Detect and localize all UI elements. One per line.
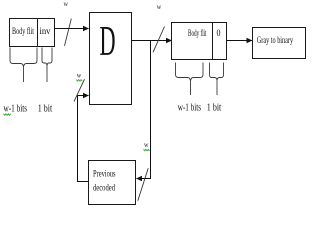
wire W2: D output to right box (132, 40, 172, 42)
svg-text:Body flit: Body flit (188, 28, 207, 38)
box B1: Body flit | inv (top-left split box) (10, 19, 55, 47)
svg-text:w: w (64, 0, 69, 8)
grammar squiggle under w (W4) (144, 149, 150, 151)
grammar squiggle under w (W5) (76, 80, 82, 82)
svg-text:1 bit: 1 bit (207, 103, 222, 114)
box B2: Body flit | 0 (right split box) (172, 23, 227, 60)
svg-text:w: w (144, 140, 149, 149)
svg-text:1 bit: 1 bit (38, 104, 53, 115)
block D (decoder register) (90, 13, 132, 105)
box B3: Gray to binary (253, 28, 306, 59)
svg-text:0: 0 (217, 28, 221, 38)
underbrace BR2: under inv cell (left box) (42, 48, 52, 83)
underbrace BR4: under 0 cell (right box) (210, 63, 224, 96)
wire W5: Previous decoded output loop back to D input (78, 96, 89, 182)
svg-text:w: w (157, 2, 162, 11)
box B4: Previous decoded (89, 161, 136, 205)
wire W3: right box to Gray to binary (227, 40, 253, 42)
bus slash on W5 (74, 79, 85, 101)
bus slash on W4 (138, 168, 148, 201)
svg-text:Previous: Previous (93, 169, 116, 179)
svg-text:decoded: decoded (93, 183, 115, 193)
wire W4: feedback tap down from W2 into Previous decoded (137, 41, 151, 179)
underbrace BR1: under Body flit cell (left box) (10, 48, 37, 83)
grammar squiggle under w-1 (left) (4, 114, 11, 116)
svg-text:D: D (100, 19, 116, 65)
svg-text:w-1 bits: w-1 bits (4, 104, 28, 115)
svg-text:w: w (77, 71, 82, 80)
svg-text:Gray to binary: Gray to binary (257, 35, 294, 45)
bus slash on W1 (65, 19, 72, 46)
bus slash on W2 (153, 27, 165, 53)
svg-text:w-1 bits: w-1 bits (178, 103, 201, 114)
svg-text:Body flit: Body flit (12, 26, 34, 36)
svg-text:inv: inv (40, 26, 51, 36)
wire W1: inv box to D input (55, 28, 89, 30)
underbrace BR3: under Body flit cell (right box) (176, 63, 204, 96)
